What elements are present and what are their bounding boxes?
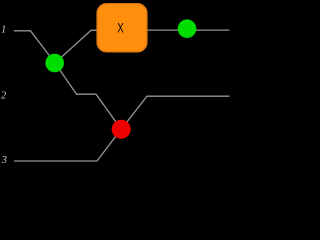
- node B (green, on output wire): [178, 19, 197, 38]
- wire input 1 to node A: [14, 31, 55, 63]
- node C (red junction): [112, 120, 131, 139]
- gate X (orange rounded box): [97, 4, 147, 52]
- wire node A to node C (zigzag): [55, 63, 121, 129]
- wire node C to right edge: [121, 96, 229, 129]
- svg-text:1: 1: [1, 25, 6, 36]
- svg-text:3: 3: [1, 155, 7, 166]
- label X on gate: [117, 21, 124, 36]
- svg-text:X: X: [117, 21, 124, 36]
- svg-text:2: 2: [1, 90, 7, 101]
- node A (green junction): [45, 54, 64, 73]
- wire gate X output to right edge (through node B): [147, 29, 230, 31]
- wire input 3 to node C: [14, 129, 121, 161]
- wire node A to gate X input: [55, 30, 97, 63]
